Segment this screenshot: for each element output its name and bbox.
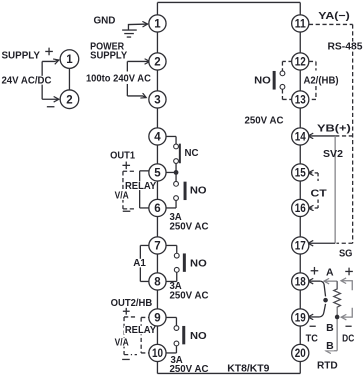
svg-text:NO: NO — [190, 257, 207, 269]
svg-text:17: 17 — [295, 241, 306, 253]
svg-text:2: 2 — [66, 94, 72, 106]
svg-text:1: 1 — [66, 54, 73, 66]
svg-text:A1: A1 — [133, 257, 146, 269]
svg-text:SUPPLY: SUPPLY — [1, 49, 40, 61]
svg-text:SV2: SV2 — [323, 148, 343, 160]
svg-text:KT8/KT9: KT8/KT9 — [227, 363, 269, 375]
svg-text:A2/(HB): A2/(HB) — [303, 75, 338, 87]
svg-text:OUT1: OUT1 — [110, 150, 135, 162]
svg-text:V/A: V/A — [115, 190, 129, 202]
svg-text:16: 16 — [295, 203, 306, 215]
svg-text:A: A — [326, 266, 334, 278]
svg-text:RELAY: RELAY — [125, 180, 156, 192]
svg-text:3: 3 — [154, 95, 160, 107]
svg-text:NO: NO — [190, 330, 207, 342]
svg-text:SUPPLY: SUPPLY — [90, 50, 127, 62]
svg-text:B: B — [326, 322, 334, 334]
svg-text:SG: SG — [339, 247, 353, 259]
svg-text:100to 240V AC: 100to 240V AC — [86, 73, 151, 85]
svg-text:2: 2 — [154, 57, 160, 69]
svg-text:YB(+): YB(+) — [317, 123, 351, 135]
svg-text:RELAY: RELAY — [125, 324, 156, 336]
svg-text:DC: DC — [342, 332, 354, 344]
svg-text:7: 7 — [154, 241, 160, 253]
svg-text:15: 15 — [295, 168, 307, 180]
svg-text:1: 1 — [154, 19, 161, 31]
svg-text:250V AC: 250V AC — [169, 363, 208, 375]
svg-text:12: 12 — [295, 57, 306, 69]
svg-text:NC: NC — [184, 147, 198, 159]
svg-text:250V AC: 250V AC — [244, 115, 283, 127]
svg-text:OUT2/HB: OUT2/HB — [111, 297, 153, 309]
svg-text:250V AC: 250V AC — [169, 290, 208, 302]
svg-text:20: 20 — [295, 348, 306, 360]
svg-text:TC: TC — [306, 332, 319, 344]
svg-text:NO: NO — [190, 184, 207, 196]
svg-text:14: 14 — [295, 132, 307, 144]
svg-text:9: 9 — [154, 313, 160, 325]
svg-text:6: 6 — [154, 203, 160, 215]
svg-text:10: 10 — [152, 348, 163, 360]
svg-text:8: 8 — [154, 277, 161, 289]
svg-text:24V AC/DC: 24V AC/DC — [1, 74, 51, 86]
svg-text:11: 11 — [295, 19, 307, 31]
svg-text:B: B — [326, 340, 334, 352]
svg-text:V/A: V/A — [115, 336, 129, 348]
svg-text:5: 5 — [154, 168, 161, 180]
svg-text:4: 4 — [154, 132, 161, 144]
svg-text:19: 19 — [295, 313, 306, 325]
svg-text:18: 18 — [295, 277, 307, 289]
svg-text:13: 13 — [295, 95, 306, 107]
svg-text:250V AC: 250V AC — [169, 221, 208, 233]
svg-text:GND: GND — [93, 14, 115, 26]
svg-text:YA(−): YA(−) — [318, 10, 350, 22]
svg-text:RS-485: RS-485 — [327, 40, 362, 52]
svg-text:RTD: RTD — [317, 359, 338, 371]
svg-text:NO: NO — [254, 75, 271, 87]
svg-text:CT: CT — [310, 188, 327, 200]
